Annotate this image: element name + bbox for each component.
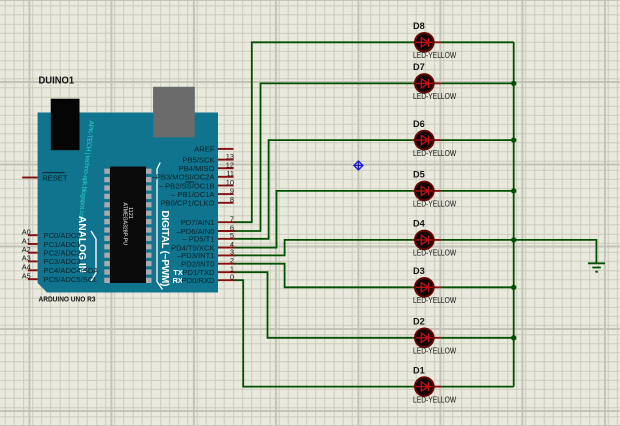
svg-text:–PB3/MOSI/OC2A: –PB3/MOSI/OC2A xyxy=(152,173,216,182)
wire pin 2 to LED D3 xyxy=(235,264,413,288)
svg-text:LED-YELLOW: LED-YELLOW xyxy=(413,347,457,356)
svg-text:DIGITAL (~PWM): DIGITAL (~PWM) xyxy=(159,211,170,287)
pin 1 stub xyxy=(218,271,236,273)
svg-text:ARDUINO UNO R3: ARDUINO UNO R3 xyxy=(39,294,96,303)
wire pin 6 to LED D7 xyxy=(235,83,413,231)
pin RESET stub xyxy=(22,177,37,179)
power jack xyxy=(51,99,80,151)
wire pin 5 to LED D6 xyxy=(235,140,413,239)
svg-text:D6: D6 xyxy=(413,119,425,129)
LED D5 xyxy=(413,182,441,201)
svg-text:D5: D5 xyxy=(413,170,425,180)
svg-text:A3: A3 xyxy=(22,254,31,263)
svg-text:D2: D2 xyxy=(413,317,425,327)
svg-text:D4: D4 xyxy=(413,219,426,229)
svg-text:D8: D8 xyxy=(413,21,425,31)
svg-text:PC1/ADC1: PC1/ADC1 xyxy=(44,240,81,249)
svg-text:DUINO1: DUINO1 xyxy=(39,76,75,87)
svg-text:A1: A1 xyxy=(22,236,31,245)
pin 8 stub xyxy=(218,202,234,204)
svg-text:PB0/CP1/CLKO: PB0/CP1/CLKO xyxy=(160,199,214,208)
svg-text:D7: D7 xyxy=(413,62,425,72)
wire pin 0 to LED D1 xyxy=(235,280,413,386)
pin A3 stub xyxy=(28,260,38,262)
svg-text:PC0/ADC0: PC0/ADC0 xyxy=(44,231,81,240)
svg-text:– PD5/T1: – PD5/T1 xyxy=(182,235,214,244)
wire LED D1 to bus xyxy=(441,386,514,388)
LED D1 xyxy=(413,377,441,396)
pin 2 stub xyxy=(218,263,236,265)
wire pin 4 to LED D5 xyxy=(235,191,413,248)
svg-text:LED-YELLOW: LED-YELLOW xyxy=(413,51,457,60)
svg-text:LED-YELLOW: LED-YELLOW xyxy=(413,149,457,158)
svg-text:PD0/RXD: PD0/RXD xyxy=(182,276,215,285)
wire bus vertical xyxy=(513,42,515,386)
pin 13 stub xyxy=(218,159,234,161)
svg-text:PC2/ADC2: PC2/ADC2 xyxy=(44,249,81,258)
junction at bus D6 row xyxy=(511,137,516,142)
svg-text:– PB1/OC1A: – PB1/OC1A xyxy=(171,190,215,199)
pin 11 stub xyxy=(218,176,234,178)
LED D6 xyxy=(413,131,441,150)
svg-text:7: 7 xyxy=(230,215,234,224)
wire pin 3 to LED D4 xyxy=(235,240,413,256)
svg-text:8: 8 xyxy=(230,195,234,204)
bracket digital pins group xyxy=(157,163,163,290)
junction at bus D2 row xyxy=(511,335,516,340)
cursor origin marker xyxy=(354,161,363,170)
wire LED D8 to bus xyxy=(441,41,514,43)
wire LED D7 to bus xyxy=(441,82,514,84)
pin 5 stub xyxy=(218,238,236,240)
svg-text:11: 11 xyxy=(226,169,234,178)
pin A0 stub xyxy=(28,234,38,236)
junction at bus D7 row xyxy=(511,81,516,86)
wire bus to ground xyxy=(514,240,597,263)
wire LED D2 to bus xyxy=(441,337,514,339)
LED D3 xyxy=(413,278,441,297)
svg-text:AREF: AREF xyxy=(194,145,215,154)
LED D2 xyxy=(413,329,441,348)
svg-text:LED-YELLOW: LED-YELLOW xyxy=(413,395,457,404)
pin 9 stub xyxy=(218,193,234,195)
pin A2 stub xyxy=(28,252,38,254)
pin 12 stub xyxy=(218,167,234,169)
svg-text:A2: A2 xyxy=(22,245,31,254)
svg-text:LED-YELLOW: LED-YELLOW xyxy=(413,92,457,101)
IC legs xyxy=(104,169,151,283)
ground xyxy=(588,263,605,271)
junction at bus D4 row xyxy=(511,237,516,242)
wire pin 7 to LED D8 xyxy=(235,42,413,222)
pin 6 stub xyxy=(218,230,236,232)
wire LED D4 to bus xyxy=(441,239,514,241)
svg-text:PC5/ADC5/SCL: PC5/ADC5/SCL xyxy=(44,275,98,284)
USB connector xyxy=(153,87,195,137)
svg-text:D3: D3 xyxy=(413,266,425,276)
pin 7 stub xyxy=(218,221,236,223)
pin AREF stub xyxy=(218,148,234,150)
svg-text:PC4/ADC4/SDA: PC4/ADC4/SDA xyxy=(44,266,100,275)
SS overline xyxy=(185,181,195,183)
LED D8 xyxy=(413,33,441,52)
bracket analog group xyxy=(91,231,96,281)
IC U1 ATMEGA328P body xyxy=(110,167,146,284)
svg-text:9: 9 xyxy=(230,186,234,195)
wire LED D3 to bus xyxy=(441,286,514,288)
wire LED D5 to bus xyxy=(441,190,514,192)
junction at bus D3 row xyxy=(511,285,516,290)
pin A1 stub xyxy=(28,243,38,245)
svg-text:D1: D1 xyxy=(413,365,425,375)
LED D4 xyxy=(413,231,441,250)
svg-text:LED-YELLOW: LED-YELLOW xyxy=(413,249,457,258)
pin A5 stub xyxy=(28,278,38,280)
svg-text:RESET: RESET xyxy=(42,173,68,182)
svg-text:PC3/ADC3: PC3/ADC3 xyxy=(44,257,81,266)
svg-text:ATMEGA328P-PU: ATMEGA328P-PU xyxy=(121,203,127,246)
svg-text:PD7/AIN1: PD7/AIN1 xyxy=(181,218,215,227)
LED D7 xyxy=(413,74,441,93)
pin 4 stub xyxy=(218,247,236,249)
wire pin 1 to LED D2 xyxy=(235,272,413,338)
svg-text:A5: A5 xyxy=(22,272,31,281)
pin 10 stub xyxy=(218,185,234,187)
pin 0 stub xyxy=(218,279,236,281)
junction at bus D5 row xyxy=(511,188,516,193)
svg-text:LED-YELLOW: LED-YELLOW xyxy=(413,296,457,305)
svg-text:5: 5 xyxy=(230,231,234,240)
pin 3 stub xyxy=(218,254,236,256)
svg-text:A4: A4 xyxy=(22,263,31,272)
svg-text:A0: A0 xyxy=(22,228,31,237)
svg-text:LED-YELLOW: LED-YELLOW xyxy=(413,200,457,209)
pin A4 stub xyxy=(28,269,38,271)
arduino module DUINO1 board body xyxy=(38,87,218,293)
svg-text:0: 0 xyxy=(230,273,234,282)
wire LED D6 to bus xyxy=(441,139,514,141)
